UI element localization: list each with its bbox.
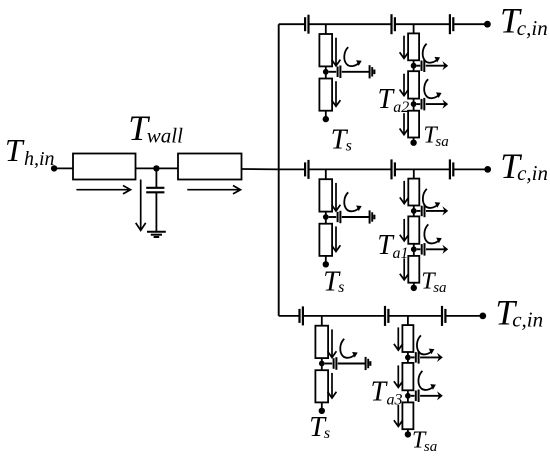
resistor Rs2 branch 2 [319, 224, 332, 256]
label Ts branch 1 [331, 125, 352, 156]
convection arrow chain2 lower branch 3 [418, 371, 435, 390]
svg-text:wall: wall [147, 124, 183, 148]
wire bus [278, 24, 280, 316]
resistor R1 [73, 154, 136, 180]
ground reference chain1 branch 2 [370, 210, 375, 223]
heat flow arrow chain2 r1 branch 2 [400, 181, 409, 204]
svg-text:c,in: c,in [512, 308, 543, 332]
resistor Rs1 branch 1 [319, 34, 332, 66]
capacitor C2c [450, 159, 453, 179]
capacitor chain1 junction branch 3 [334, 357, 337, 370]
wire chain2 junction2 line branch 2 [417, 245, 449, 254]
svg-text:c,in: c,in [517, 16, 548, 40]
label Tsa branch 1 [423, 123, 448, 151]
wire chain2 stub branch 3 [407, 316, 409, 325]
heat flow arrow chain2 r3 branch 1 [400, 113, 409, 135]
resistor Ra1 branch 2 [408, 179, 419, 206]
label Ts branch 3 [309, 412, 330, 443]
node Ts junction branch 3 [319, 361, 325, 367]
capacitor chain2 junction2 branch 1 [422, 98, 425, 111]
svg-text:a1: a1 [393, 245, 409, 262]
wire [54, 167, 73, 169]
heat flow arrow under R2 [187, 186, 240, 194]
capacitor C2b [392, 159, 395, 179]
wire chain2 bottom branch 2 [413, 283, 415, 286]
svg-text:sa: sa [433, 280, 446, 296]
node Ta junction1 branch 3 [405, 355, 411, 361]
node Ts branch 2 [323, 261, 329, 267]
heat loss arrow [136, 180, 146, 231]
node Tc,in branch 2 [484, 166, 491, 173]
resistor Ra2 branch 2 [408, 216, 419, 243]
wire chain2 mid1 branch 1 [413, 60, 415, 71]
convection arrow chain2 upper branch 3 [417, 335, 434, 354]
resistor Ra1 branch 1 [408, 33, 419, 60]
capacitor C_wall [146, 168, 164, 231]
resistor Ra1 branch 3 [402, 325, 413, 352]
capacitor C3a [300, 306, 303, 325]
resistor Ra3 branch 1 [408, 111, 419, 138]
label Tc,in branch 1 [500, 1, 548, 41]
resistor Rs1 branch 3 [315, 326, 328, 358]
resistor Rs2 branch 3 [315, 370, 328, 402]
label Ta2 branch 1 [378, 84, 410, 116]
convection arrow chain1 branch 3 [340, 339, 357, 358]
ground reference chain1 branch 3 [366, 357, 371, 370]
convection arrow chain2 upper branch 2 [423, 189, 440, 208]
wire chain2 mid2 branch 1 [413, 99, 415, 111]
wire chain1 stub branch 2 [325, 169, 327, 179]
label Tc,in branch 2 [500, 146, 548, 186]
resistor Ra2 branch 1 [408, 71, 419, 98]
node Ta junction2 branch 1 [411, 101, 417, 107]
wire chain1 stub branch 1 [325, 24, 327, 34]
node Tsa branch 1 [410, 140, 416, 146]
heat flow arrow under R1 [76, 186, 130, 194]
wire chain1 junction line branch 1 [329, 71, 370, 73]
label Tsa branch 2 [421, 268, 446, 296]
svg-text:s: s [324, 425, 330, 442]
wire chain1 mid branch 1 [325, 66, 327, 78]
wire chain1 mid branch 3 [321, 358, 323, 370]
wire chain1 bottom branch 1 [325, 111, 327, 117]
capacitor chain2 junction2 branch 2 [422, 243, 425, 256]
wire chain2 mid2 branch 2 [413, 244, 415, 256]
resistor Rs1 branch 2 [319, 179, 332, 211]
label Ta1 branch 2 [377, 230, 408, 262]
node wall junction [153, 165, 159, 171]
svg-text:sa: sa [435, 134, 448, 150]
label Twall [128, 108, 183, 148]
node Tsa branch 3 [405, 431, 411, 437]
node Ts branch 1 [323, 116, 329, 122]
wire [136, 167, 179, 169]
node Ts branch 3 [319, 408, 325, 414]
wire chain2 bottom branch 1 [413, 138, 415, 141]
capacitor chain1 junction branch 2 [338, 211, 341, 223]
node Ta junction1 branch 2 [411, 208, 417, 214]
capacitor C3b [385, 306, 388, 326]
capacitor chain2 junction1 branch 2 [422, 205, 425, 218]
wire chain2 stub branch 2 [413, 169, 415, 178]
heat flow arrow chain2 r2 branch 3 [394, 365, 403, 387]
svg-text:sa: sa [424, 439, 437, 455]
svg-text:s: s [338, 279, 344, 296]
heat flow arrow chain1 upper branch 2 [332, 183, 341, 211]
heat flow arrow chain1 upper branch 3 [328, 329, 337, 357]
convection arrow chain2 lower branch 2 [424, 224, 441, 243]
node Th,in [51, 165, 57, 171]
resistor Ra3 branch 2 [408, 256, 419, 283]
node Tc,in branch 1 [484, 21, 491, 28]
wire chain2 mid1 branch 2 [413, 206, 415, 217]
heat flow arrow chain2 r2 branch 2 [400, 219, 409, 241]
label Th,in [5, 132, 55, 170]
svg-text:h,in: h,in [24, 148, 55, 170]
capacitor C2a [305, 160, 308, 179]
resistor R2 [178, 154, 242, 180]
capacitor C1c [450, 14, 453, 34]
wire chain2 junction2 line branch 3 [411, 391, 443, 400]
convection arrow chain1 branch 2 [344, 192, 361, 211]
ground [147, 232, 166, 237]
resistor Rs2 branch 1 [319, 79, 332, 111]
node Ts junction branch 1 [323, 69, 329, 75]
wire chain1 mid branch 2 [325, 212, 327, 224]
capacitor C3c [442, 306, 445, 326]
label Ta3 branch 3 [371, 377, 403, 409]
heat flow arrow chain2 r1 branch 1 [400, 36, 409, 59]
convection arrow chain2 upper branch 1 [423, 44, 440, 63]
wire chain1 stub branch 3 [321, 316, 323, 326]
label Ts branch 2 [323, 266, 344, 297]
heat flow arrow chain2 r3 branch 2 [400, 258, 409, 280]
wire chain1 bottom branch 3 [321, 402, 323, 408]
svg-text:a3: a3 [387, 392, 403, 409]
ground reference chain1 branch 1 [370, 65, 375, 78]
wire chain2 junction2 line branch 1 [417, 100, 449, 109]
wire chain1 junction line branch 3 [325, 363, 366, 365]
wire branch 1 [279, 23, 488, 25]
wire chain2 mid1 branch 3 [407, 352, 409, 363]
capacitor chain2 junction1 branch 1 [422, 60, 425, 73]
convection arrow chain2 lower branch 1 [424, 79, 441, 98]
heat flow arrow chain1 lower branch 1 [332, 81, 341, 106]
label Tc,in branch 3 [495, 292, 543, 332]
capacitor chain1 junction branch 1 [338, 66, 341, 79]
wire chain2 mid2 branch 3 [407, 390, 409, 402]
heat flow arrow chain2 r3 branch 3 [394, 405, 403, 427]
heat flow arrow chain1 lower branch 2 [332, 226, 341, 251]
wire chain1 bottom branch 2 [325, 256, 327, 262]
convection arrow chain1 branch 1 [344, 47, 361, 66]
wire chain2 stub branch 1 [413, 24, 415, 33]
capacitor C1b [392, 14, 395, 34]
wire chain1 junction line branch 2 [329, 216, 370, 218]
heat flow arrow chain2 r2 branch 1 [400, 74, 409, 96]
node Tc,in branch 3 [479, 313, 486, 320]
wire chain2 junction1 line branch 1 [417, 61, 449, 70]
label Tsa branch 3 [412, 427, 437, 455]
wire branch 2 [279, 168, 488, 170]
svg-text:s: s [346, 138, 352, 155]
wire [242, 168, 279, 170]
capacitor C1a [305, 15, 308, 34]
heat flow arrow chain1 lower branch 3 [328, 373, 337, 398]
heat flow arrow chain1 upper branch 1 [332, 38, 341, 66]
capacitor chain2 junction1 branch 3 [416, 351, 419, 364]
wire chain2 bottom branch 3 [407, 429, 409, 432]
resistor Ra2 branch 3 [402, 363, 413, 390]
svg-text:a2: a2 [393, 99, 409, 116]
node Tsa branch 2 [411, 285, 417, 291]
wire chain2 junction1 line branch 3 [411, 353, 443, 362]
node Ta junction2 branch 2 [411, 246, 417, 252]
node Ta junction2 branch 3 [405, 393, 411, 399]
resistor Ra3 branch 3 [402, 402, 413, 429]
node Ts junction branch 2 [323, 214, 329, 220]
heat flow arrow chain2 r1 branch 3 [394, 327, 403, 350]
capacitor chain2 junction2 branch 3 [416, 390, 419, 403]
svg-text:c,in: c,in [517, 161, 548, 185]
wire chain2 junction1 line branch 2 [417, 206, 449, 215]
svg-text:T: T [5, 132, 25, 168]
node Ta junction1 branch 1 [411, 63, 417, 69]
wire branch 3 [279, 315, 483, 317]
